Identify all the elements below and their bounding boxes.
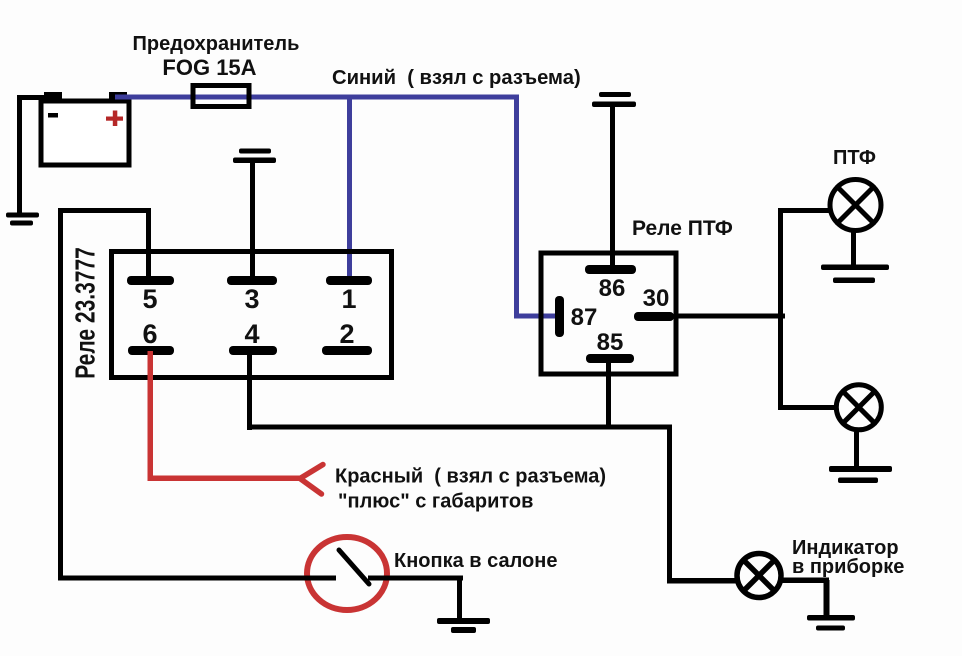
wire red from pin 6 down <box>148 351 154 481</box>
pin 5 bar <box>127 276 174 285</box>
wire switch ground down <box>457 578 462 620</box>
wire left vertical down to switch <box>58 208 63 580</box>
wire battery negative down <box>17 95 22 215</box>
wire indicator ground down <box>824 580 830 618</box>
svg-text:Синий ( взял с разъема): Синий ( взял с разъема) <box>332 67 581 89</box>
svg-text:5: 5 <box>142 284 157 314</box>
wire branch to bottom lamp <box>778 405 834 410</box>
wire relay-PTF 85 down <box>606 363 611 429</box>
svg-text:1: 1 <box>341 284 356 314</box>
wire pin 4 horizontal to indicator branch <box>247 425 672 430</box>
svg-text:86: 86 <box>599 275 626 302</box>
wire switch to ground <box>368 576 463 581</box>
red arrowhead <box>300 465 323 495</box>
pin 1 bar <box>326 276 372 285</box>
svg-text:Реле 23.3777: Реле 23.3777 <box>71 247 101 379</box>
svg-text:3: 3 <box>244 284 259 314</box>
svg-text:"плюс" с габаритов: "плюс" с габаритов <box>338 491 533 513</box>
relay K1 23.3777 box <box>112 252 392 378</box>
wire indicator branch down <box>667 425 672 583</box>
lamp HL2 bottom <box>836 385 881 430</box>
ground GND lamp1 <box>821 265 889 284</box>
battery GB1 <box>41 92 129 165</box>
wire blue main horizontal (battery + to right) <box>115 95 519 100</box>
pin 4 bar <box>229 346 277 355</box>
relay K2 PTF box <box>541 253 676 374</box>
svg-text:ПТФ: ПТФ <box>833 147 876 169</box>
wire into indicator lamp <box>667 578 739 584</box>
svg-text:85: 85 <box>597 329 624 356</box>
wire red horizontal <box>148 476 303 482</box>
svg-text:FOG 15A: FOG 15A <box>162 55 256 80</box>
wire lamp2 down <box>854 432 859 468</box>
wire lamp branch vertical <box>778 208 783 410</box>
pin 86 bar <box>585 265 636 274</box>
ground GND indicator <box>807 615 855 631</box>
wire indicator right <box>782 578 829 584</box>
pin 85 bar <box>586 354 634 363</box>
wire pin 30 to lamp branch <box>674 314 785 319</box>
pin 87 bar <box>555 296 564 337</box>
lamp HL1 top <box>830 180 881 231</box>
fuse FOG 15A <box>193 86 249 107</box>
switch lever <box>339 550 369 584</box>
ground GND1 (battery) <box>6 213 39 226</box>
wire blue drop to pin 1 <box>347 97 352 281</box>
svg-text:Красный ( взял с разъема): Красный ( взял с разъема) <box>335 466 606 488</box>
svg-text:4: 4 <box>244 319 259 349</box>
wire pin 86 up <box>610 107 615 269</box>
wire pin 3 up <box>250 163 255 281</box>
svg-text:87: 87 <box>571 304 598 331</box>
wire left horizontal to pin5 riser <box>58 208 151 213</box>
svg-text:6: 6 <box>142 319 157 349</box>
battery plus terminal mark <box>106 111 123 127</box>
ground GND switch <box>437 618 490 633</box>
svg-text:Предохранитель: Предохранитель <box>133 33 300 55</box>
svg-text:2: 2 <box>339 319 354 349</box>
wire pin 4 down <box>247 351 252 430</box>
svg-text:в приборке: в приборке <box>792 556 904 578</box>
wire branch to top lamp <box>778 208 830 213</box>
wire into switch <box>58 576 336 581</box>
pin 30 bar <box>634 312 674 321</box>
pin 6 bar <box>128 346 174 355</box>
wire blue drop to pin 87 <box>514 97 519 318</box>
svg-text:Реле ПТФ: Реле ПТФ <box>632 217 733 240</box>
svg-text:Кнопка в салоне: Кнопка в салоне <box>394 550 557 572</box>
switch SW1 circle <box>307 537 387 610</box>
wire blue horizontal into pin 87 <box>514 314 559 319</box>
pin 2 bar <box>322 346 372 355</box>
ground symbol above pin 3 <box>233 149 276 164</box>
ground GND lamp2 <box>829 466 892 483</box>
wire lamp1 down <box>851 230 856 267</box>
wire ground-to-battery horizontal <box>17 95 46 100</box>
indicator lamp HL3 <box>737 554 781 598</box>
wire pin 5 up <box>146 210 151 280</box>
ground symbol above pin 86 <box>592 92 636 107</box>
svg-text:30: 30 <box>643 285 670 312</box>
pin 3 bar <box>227 276 277 285</box>
